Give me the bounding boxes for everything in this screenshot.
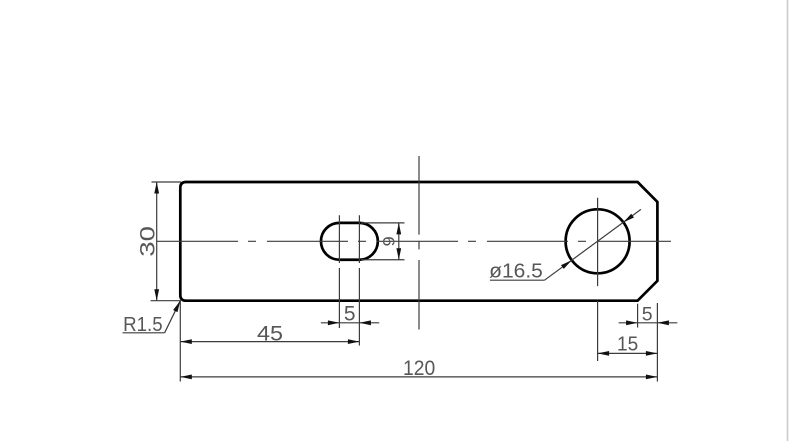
leader D16.5 [490, 209, 641, 280]
dimension 9 [361, 223, 405, 260]
slot left arc centerline [338, 215, 340, 328]
hole D16.5 [566, 209, 630, 273]
dimension 45 [180, 301, 359, 382]
dimension 5 chamfer [619, 304, 678, 328]
plate outline [180, 182, 657, 301]
window border right [787, 0, 789, 441]
leader R1.5 [123, 301, 181, 333]
svg-text:5: 5 [344, 303, 356, 326]
svg-text:9: 9 [380, 236, 398, 246]
svg-text:120: 120 [403, 356, 435, 380]
circle vertical centerline [597, 198, 599, 361]
svg-text:45: 45 [257, 323, 283, 346]
vertical mid centerline [418, 156, 420, 330]
svg-text:R1.5: R1.5 [123, 314, 163, 336]
svg-text:15: 15 [617, 333, 638, 356]
dimension 120 [180, 303, 657, 382]
slot right arc centerline [358, 215, 360, 345]
dimension 5 slot [321, 322, 379, 324]
svg-text:ø16.5: ø16.5 [489, 260, 543, 282]
svg-text:30: 30 [136, 226, 159, 257]
slot hole [321, 223, 378, 260]
dimension 15 [598, 352, 658, 354]
horizontal centerline [157, 240, 671, 242]
dimension 30 [151, 182, 182, 301]
svg-text:5: 5 [642, 304, 653, 326]
